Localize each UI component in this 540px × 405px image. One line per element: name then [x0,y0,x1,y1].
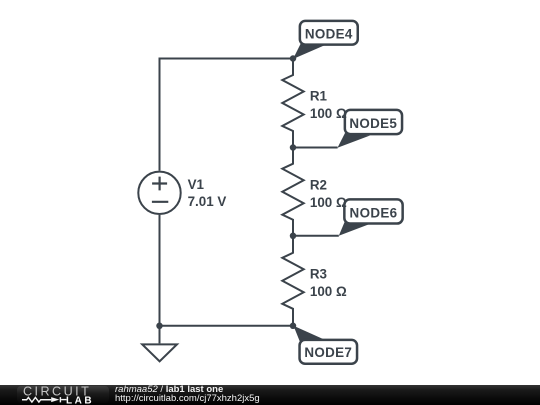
svg-text:7.01 V: 7.01 V [188,194,227,209]
svg-text:R3: R3 [310,266,327,281]
svg-text:LAB: LAB [66,395,94,405]
svg-text:100 Ω: 100 Ω [310,284,347,299]
svg-text:R2: R2 [310,177,327,192]
svg-text:R1: R1 [310,89,328,104]
svg-text:100 Ω: 100 Ω [310,195,347,210]
svg-text:100 Ω: 100 Ω [310,106,347,121]
svg-text:NODE6: NODE6 [350,206,398,221]
svg-text:NODE7: NODE7 [304,345,352,360]
svg-text:NODE4: NODE4 [305,26,353,41]
svg-text:V1: V1 [188,177,205,192]
svg-text:NODE5: NODE5 [349,116,397,131]
